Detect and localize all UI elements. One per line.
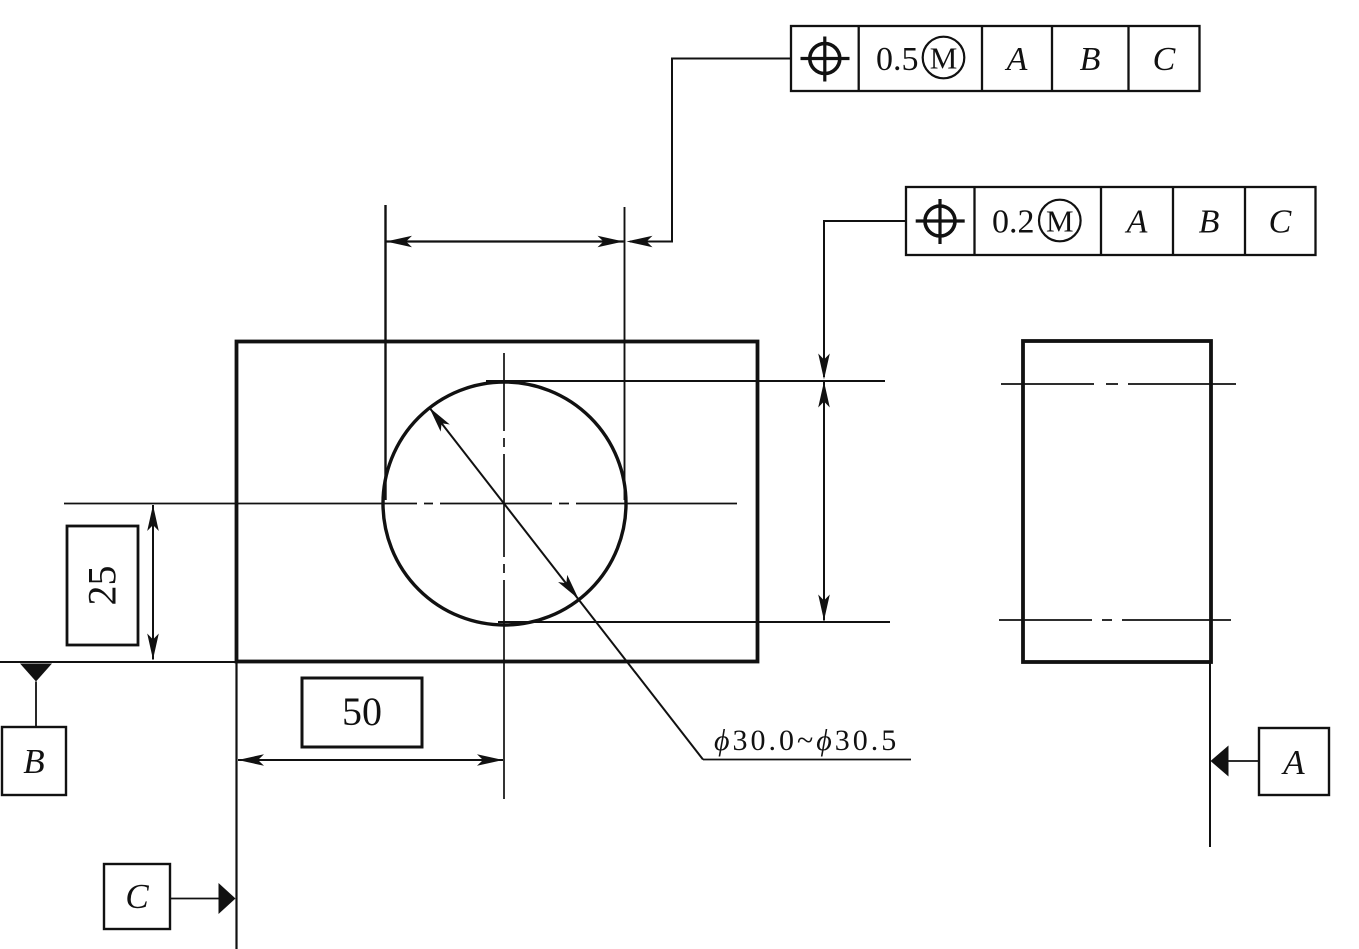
datum B box (2, 727, 66, 795)
datum C connector (170, 898, 219, 900)
datum B triangle (20, 664, 52, 682)
datum C box (104, 864, 170, 929)
svg-text:B: B (23, 742, 44, 781)
leader from FCF2 (824, 221, 906, 377)
svg-text:A: A (1125, 204, 1148, 241)
leader FCF1 arrow (627, 236, 653, 248)
datum C triangle (219, 883, 236, 914)
50 dimension line (238, 759, 503, 761)
extension line right of top dimension (624, 207, 626, 500)
FCF2 dividers (975, 187, 1246, 255)
svg-text:B: B (1080, 41, 1101, 78)
svg-text:C: C (125, 877, 149, 916)
vertical centerline (503, 353, 505, 799)
svg-text:C: C (1269, 204, 1292, 241)
25 basic dimension box (67, 526, 138, 645)
side view outline (1023, 341, 1211, 662)
datum A box (1259, 728, 1329, 795)
leader FCF2 arrow (818, 354, 830, 380)
50 dim right arrow (477, 754, 503, 766)
datum A connector (1228, 760, 1259, 762)
hole circle (383, 382, 626, 625)
diameter arrow lower-right (558, 575, 583, 603)
25 dim top arrow (147, 505, 159, 531)
25 dim bottom arrow (147, 634, 159, 660)
svg-text:0.2: 0.2 (992, 204, 1035, 241)
svg-text:M: M (1046, 204, 1074, 239)
FCF1 dividers (859, 26, 1129, 91)
part outline front view (237, 342, 758, 662)
svg-text:B: B (1199, 204, 1220, 241)
vertical dimension top arrow (818, 382, 830, 408)
25 dimension line (152, 505, 154, 660)
top dimension right arrow (598, 236, 624, 248)
diameter arrow upper-left (425, 404, 450, 432)
diameter diagonal line (429, 408, 703, 760)
side view upper chain line (1001, 383, 1236, 385)
datum B stem (35, 682, 37, 728)
left edge extension line below (235, 661, 237, 949)
label underline (703, 759, 911, 761)
bottom datum baseline (0, 661, 236, 663)
svg-text:25: 25 (80, 566, 125, 606)
top dimension left arrow (386, 236, 412, 248)
FCF1 position symbol (801, 37, 850, 82)
vertical dimension line right (823, 382, 825, 621)
top tangent line (486, 380, 885, 382)
svg-text:0.5: 0.5 (876, 41, 919, 78)
side view lower chain line (999, 619, 1231, 621)
top dimension line (386, 240, 624, 242)
50 dim left arrow (238, 754, 264, 766)
50 basic dimension box (302, 678, 422, 747)
FCF1 frame (791, 26, 1200, 91)
svg-text:50: 50 (342, 689, 382, 734)
vertical dimension bottom arrow (818, 595, 830, 621)
horizontal centerline (64, 503, 737, 505)
svg-text:M: M (930, 41, 958, 76)
datum A triangle (1211, 746, 1229, 777)
extension line left of top dimension (384, 205, 386, 500)
svg-text:A: A (1005, 41, 1028, 78)
bottom tangent line (498, 621, 890, 623)
FCF1 M circle (923, 37, 965, 79)
svg-text:A: A (1281, 743, 1305, 782)
svg-text:ϕ30.0~ϕ30.5: ϕ30.0~ϕ30.5 (714, 724, 899, 757)
FCF2 M circle (1039, 200, 1081, 242)
leader from FCF1 (630, 59, 791, 242)
FCF2 position symbol (916, 199, 965, 244)
side view right edge extension (1209, 662, 1211, 847)
svg-text:C: C (1153, 41, 1176, 78)
FCF2 frame (906, 187, 1316, 255)
